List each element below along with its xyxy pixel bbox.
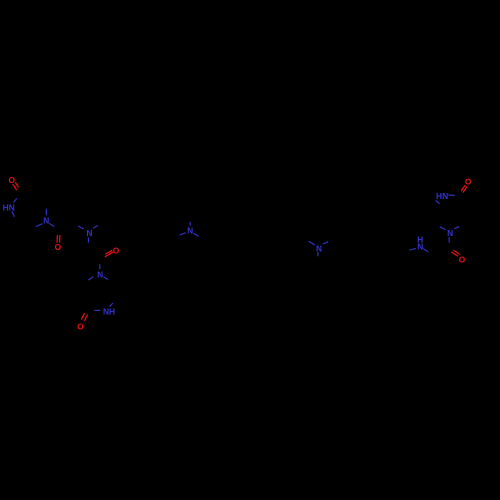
svg-text:N: N: [417, 241, 423, 251]
bond N4-C5 (ring, down-left): [36, 224, 43, 227]
bond N-C(=O) (down, to amide carbonyl): [448, 237, 450, 243]
bond HN-CH2 (ring, down-left): [436, 200, 440, 204]
svg-text:O: O: [77, 321, 84, 331]
svg-text:O: O: [8, 175, 15, 185]
bond N-CH2 (left, chain): [409, 249, 416, 251]
bond N-CH2 (ring, up-left): [440, 227, 446, 230]
svg-text:O: O: [113, 246, 120, 256]
svg-text:O: O: [465, 177, 472, 187]
bond N-CH2 (up-right, chain): [323, 242, 328, 244]
bond C2-N1 (to HN of top-left lactam): [13, 198, 16, 203]
bond N-CH2 (down-right, chain): [194, 233, 199, 236]
bond N-CH2 (ring, down-left): [88, 277, 93, 280]
bond N-CH2 (ring, down-right): [103, 277, 108, 280]
bond C(=O)=O double bond (first glycinamide carbonyl): [57, 235, 60, 243]
bond N-CH3 (down, methyl): [317, 252, 319, 256]
svg-text:N: N: [187, 225, 193, 235]
svg-text:HN: HN: [436, 191, 448, 201]
bond N-CH2 (down toward second glycinamide): [87, 238, 89, 243]
bond N-CH2 (right, toward amide): [423, 249, 428, 252]
bond NH-CH2 (ring, up-right): [110, 303, 113, 306]
svg-text:N: N: [316, 244, 322, 254]
svg-text:N: N: [97, 270, 103, 280]
bond C=O double bond (right piperazinone carbonyl): [461, 185, 467, 193]
svg-text:O: O: [459, 254, 466, 264]
svg-text:O: O: [55, 242, 62, 252]
bond N-CH2 (up-left, chain): [309, 241, 315, 245]
bond CH2-N (up to tertiary amine N): [78, 226, 84, 229]
bond HN-C(=O) (right, horizontal): [448, 194, 454, 196]
bond NH-C(=O) (left, horizontal): [94, 309, 100, 311]
bond C=O double bond (right glycinamide carbonyl): [451, 250, 460, 256]
bond N4-C3 (ring, up): [45, 209, 47, 216]
bond N-CH2 (ring, up-right): [454, 227, 459, 229]
svg-text:NH: NH: [103, 307, 115, 317]
bond N-CH3 (up, methyl): [189, 222, 191, 226]
bond N-CH2 (up-right toward chain): [93, 226, 98, 229]
bond C=O double bond (lower piperazinone carbonyl): [81, 313, 88, 321]
bond N1-C6 (HN down to ring CH2): [12, 211, 15, 217]
bond C(=O)-N (down to lower piperazinone N): [99, 264, 101, 269]
svg-text:N: N: [86, 228, 92, 238]
bond C(=O)=O double bond (second glycinamide carbonyl): [105, 250, 113, 256]
svg-text:HN: HN: [3, 203, 15, 213]
bond C2=O double bond (top-left lactam carbonyl): [13, 182, 19, 190]
bond N-CH2 (down-left, chain): [180, 233, 186, 235]
bond N4-C(=O) amide (down-right): [49, 223, 54, 226]
svg-text:N: N: [447, 228, 453, 238]
svg-text:N: N: [43, 216, 49, 226]
